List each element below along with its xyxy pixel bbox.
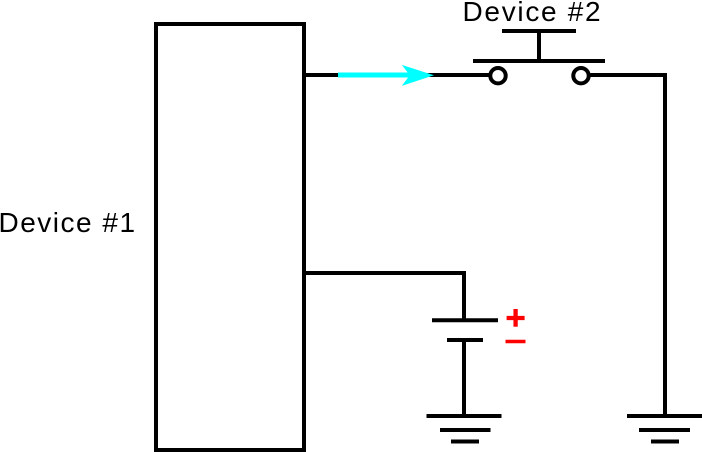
svg-text:Device #2: Device #2 (463, 0, 603, 27)
ground left top bar (427, 414, 502, 418)
pushbutton switch S1 left contact (490, 68, 505, 83)
pushbutton switch S1 right contact (573, 68, 588, 83)
ground right top bar (627, 414, 702, 418)
battery B1 negative plate (447, 338, 483, 342)
polarity minus label (506, 340, 526, 344)
wire switch to right ground (591, 75, 666, 416)
wire battery to left ground (462, 340, 466, 416)
ground left middle bar (440, 428, 491, 432)
svg-text:Device #1: Device #1 (0, 207, 137, 238)
ground left bottom bar (451, 440, 479, 444)
polarity plus label (507, 309, 525, 327)
ground right middle bar (639, 428, 690, 432)
ground right bottom bar (651, 440, 679, 444)
device D1 box (156, 24, 304, 450)
pushbutton switch S1 actuator cap (502, 29, 576, 33)
wire box to battery (306, 273, 464, 320)
wire box to switch (306, 73, 489, 77)
pushbutton switch S1 bar (473, 59, 605, 63)
battery B1 positive plate (432, 318, 498, 322)
signal arrow (cyan) (338, 65, 434, 86)
pushbutton switch S1 stem (537, 31, 541, 63)
